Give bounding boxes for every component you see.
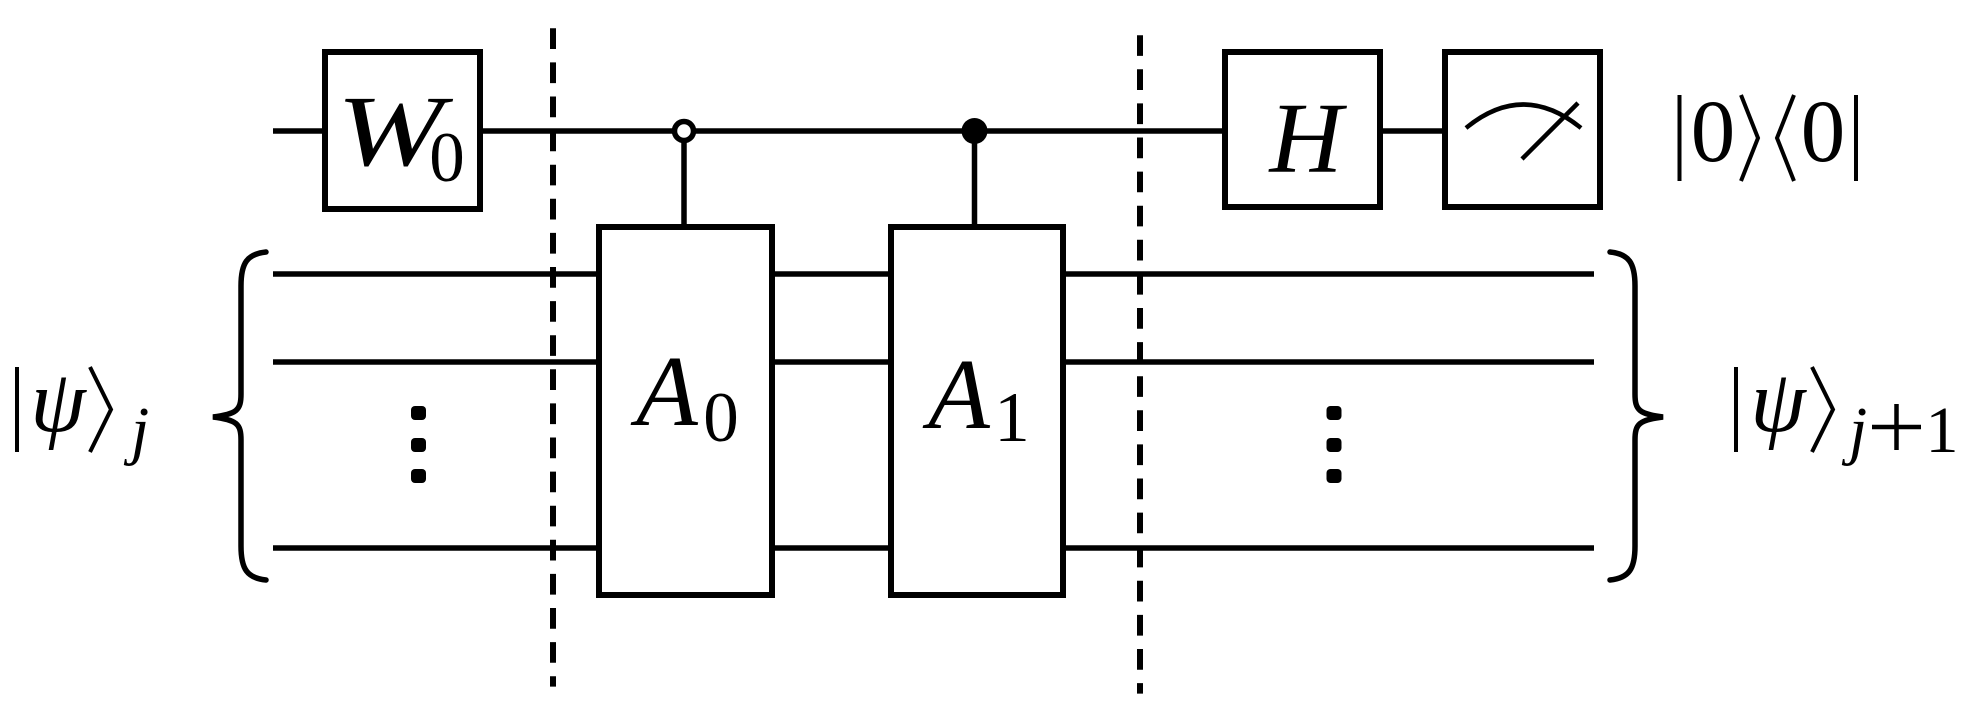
svg-text:A: A <box>922 338 991 450</box>
label |psi>_j+1 right <box>1736 353 1959 467</box>
svg-text:A: A <box>630 335 699 447</box>
brace right } <box>1610 252 1663 580</box>
svg-text:0: 0 <box>1801 83 1846 181</box>
svg-text:0: 0 <box>703 379 739 457</box>
gate W0 box <box>325 52 480 209</box>
svg-text:1: 1 <box>1926 394 1959 467</box>
barrier dashed line left <box>550 28 556 686</box>
vdots left (register ellipsis) <box>411 406 426 483</box>
svg-text:1: 1 <box>994 379 1030 457</box>
control filled dot on ancilla <box>962 118 988 144</box>
label |0><0| <box>1680 83 1857 181</box>
wire control vertical for A0 <box>681 131 687 228</box>
brace left { <box>213 252 266 580</box>
wire control vertical for A1 <box>972 131 978 228</box>
svg-text:0: 0 <box>1691 83 1736 181</box>
wire register line 3 <box>273 545 1594 551</box>
svg-text:H: H <box>1268 82 1348 194</box>
vdots right (register ellipsis) <box>1327 406 1342 483</box>
meter needle <box>1522 103 1578 159</box>
measurement meter box <box>1445 52 1600 207</box>
gate A1 box <box>891 227 1063 595</box>
gate A0 box <box>599 227 772 595</box>
meter arc <box>1466 105 1581 129</box>
barrier dashed line right <box>1137 35 1143 693</box>
gate H box <box>1225 52 1380 207</box>
wire register line 1 <box>273 271 1594 277</box>
wire ancilla (top qubit line) <box>273 128 1445 134</box>
control open circle (anti-control) on ancilla <box>675 122 694 141</box>
svg-text:ψ: ψ <box>1750 353 1807 451</box>
wire register line 2 <box>273 359 1594 365</box>
label |psi>_j left <box>17 353 149 467</box>
svg-text:ψ: ψ <box>30 353 87 451</box>
svg-text:0: 0 <box>429 119 465 197</box>
